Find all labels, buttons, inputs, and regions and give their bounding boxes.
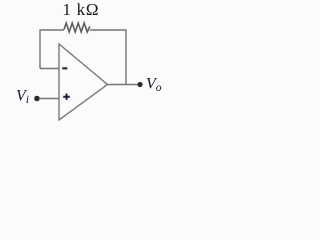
wire: Vi to plus input	[39, 98, 59, 100]
pin label minus (inverting input)	[62, 67, 67, 69]
node Vi terminal dot	[34, 96, 40, 102]
pin label plus (non-inverting input)	[63, 94, 70, 100]
wire: output	[108, 84, 141, 86]
svg-text:1 kΩ: 1 kΩ	[63, 0, 100, 19]
op-amp U1 triangle	[59, 44, 108, 120]
wire: feedback top-left segment	[40, 30, 64, 69]
node Vo terminal dot	[137, 82, 142, 87]
wire: minus input horizontal	[40, 68, 59, 70]
resistor R1 zigzag	[64, 23, 90, 32]
wire: resistor to right corner and down to output	[90, 30, 126, 85]
